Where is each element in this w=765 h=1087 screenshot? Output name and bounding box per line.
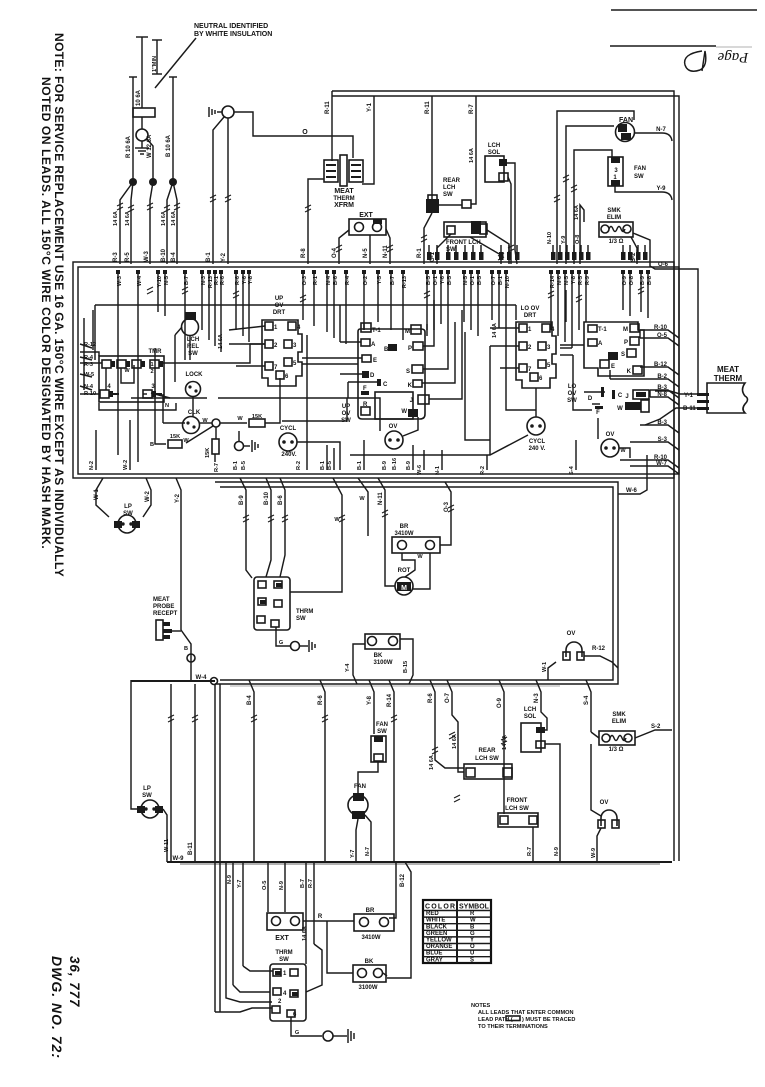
svg-text:N-6: N-6: [557, 276, 563, 285]
wire O-4: [339, 230, 349, 264]
svg-text:B: B: [150, 442, 154, 448]
svg-text:WHITE: WHITE: [426, 918, 445, 924]
svg-text:R-8: R-8: [301, 248, 307, 258]
svg-text:R-10: R-10: [84, 391, 96, 397]
svg-text:W-2: W-2: [123, 460, 129, 470]
svg-text:R-7: R-7: [527, 847, 533, 856]
svg-text:W-3: W-3: [117, 276, 123, 286]
wire R-11 rear latch: [431, 96, 433, 200]
control board frame inner: [78, 267, 679, 474]
svg-text:B-11: B-11: [683, 406, 696, 412]
wire R-10 front latch: [487, 230, 509, 264]
supply lead L1: [132, 77, 134, 181]
svg-text:F: F: [363, 386, 367, 392]
svg-text:Y-1: Y-1: [367, 102, 373, 112]
svg-text:FAN: FAN: [354, 784, 366, 790]
wires exiting band right side with labels: [610, 325, 679, 474]
svg-text:ELIM: ELIM: [607, 215, 621, 221]
svg-text:R-4: R-4: [345, 275, 351, 285]
svg-text:REAR: REAR: [478, 748, 496, 754]
ground at neutral: [141, 141, 143, 148]
svg-text:B-11: B-11: [188, 842, 194, 855]
wire lp to bus: [163, 809, 167, 862]
svg-text:N-9: N-9: [279, 881, 285, 890]
svg-text:RECEPT: RECEPT: [153, 611, 178, 617]
svg-text:CYCL: CYCL: [280, 426, 297, 432]
wire from solenoid pin 2: [508, 177, 511, 264]
wire ext to br: [303, 920, 354, 922]
svg-text:COLOR: COLOR: [425, 904, 455, 911]
svg-text:FAN: FAN: [634, 166, 646, 172]
svg-text:14 6A: 14 6A: [302, 926, 308, 941]
svg-text:SW: SW: [142, 793, 152, 799]
svg-text:B-15: B-15: [403, 661, 409, 673]
svg-text:CYCL: CYCL: [529, 439, 546, 445]
svg-text:14 6A: 14 6A: [452, 734, 458, 749]
wire R-7 lower: [532, 827, 534, 862]
svg-text:SYMBOL: SYMBOL: [459, 904, 490, 911]
svg-text:1″MIN: 1″MIN: [152, 56, 158, 72]
svg-text:Y-1: Y-1: [684, 393, 694, 399]
junction dot W-4: [211, 678, 218, 685]
svg-text:UP: UP: [275, 296, 283, 302]
wire O-9 front latch: [470, 237, 501, 264]
wire B-6 drop: [280, 478, 285, 577]
svg-text:R-14: R-14: [550, 275, 556, 288]
svg-text:Page: Page: [717, 49, 749, 65]
svg-text:THERM: THERM: [714, 374, 743, 383]
svg-text:BLUE: BLUE: [426, 951, 442, 957]
svg-text:MEAT: MEAT: [153, 597, 170, 603]
svg-text:14 6A: 14 6A: [161, 211, 167, 226]
svg-text:14 6A: 14 6A: [171, 211, 177, 226]
wire S-2 lower: [635, 730, 672, 738]
svg-text:Y-8: Y-8: [367, 695, 373, 705]
wire B-2 riser: [609, 370, 611, 379]
wire S-4 lower: [586, 680, 591, 732]
svg-text:EXT: EXT: [275, 935, 289, 942]
svg-text:G: G: [470, 931, 475, 937]
svg-text:R-7: R-7: [214, 463, 220, 472]
svg-text:LCH: LCH: [443, 185, 455, 191]
svg-text:B-2: B-2: [657, 374, 667, 380]
svg-text:Y: Y: [470, 938, 474, 944]
svg-text:W: W: [617, 406, 623, 412]
wire R-8 from transformer: [308, 179, 324, 264]
svg-text:W-11: W-11: [164, 839, 170, 852]
timer contact box: [99, 356, 164, 402]
wire Y-1 from transformer: [362, 96, 374, 184]
wire Y-4 to bake element: [353, 644, 365, 684]
svg-text:REL: REL: [187, 344, 199, 350]
svg-text:B: B: [470, 924, 475, 930]
wire R-3: [120, 182, 133, 264]
ground mid band: [244, 445, 250, 447]
transformer MEAT THERM XFRM: [324, 155, 363, 186]
wire Y-1 meat therm: [655, 391, 698, 394]
wire w-1 ov: [548, 662, 556, 680]
wire B-4: [249, 680, 254, 862]
svg-text:M: M: [401, 585, 407, 592]
svg-text:OV: OV: [606, 432, 615, 438]
wire R-14 to broil element: [389, 862, 396, 918]
svg-text:SW: SW: [634, 174, 644, 180]
contact row 2: [80, 390, 162, 398]
svg-text:SW: SW: [567, 398, 577, 404]
svg-text:O-9: O-9: [497, 697, 503, 708]
svg-text:2: 2: [150, 369, 153, 375]
svg-text:R-13: R-13: [402, 276, 408, 288]
wire W to BR: [358, 478, 368, 536]
relay LCH REL SW: [182, 312, 199, 336]
svg-text:K: K: [408, 383, 413, 389]
wire hash marks (150C): [117, 175, 644, 802]
svg-text:B-12: B-12: [400, 873, 406, 887]
svg-text:O-2: O-2: [363, 276, 369, 285]
wire O-1: [437, 234, 451, 264]
svg-text:P: P: [624, 340, 628, 346]
svg-text:N-7: N-7: [656, 127, 666, 133]
wire N-11: [378, 478, 385, 536]
svg-text:3410W: 3410W: [361, 935, 380, 941]
svg-text:NOTED ON LEADS. ALL 150°C WIR: NOTED ON LEADS. ALL 150°C WIRE COLOR DES…: [39, 77, 53, 549]
svg-text:B-1: B-1: [320, 461, 326, 470]
band bottom interior labels: [306, 335, 308, 470]
svg-text:B-6: B-6: [333, 276, 339, 285]
wire R-5: [131, 182, 133, 264]
wire Y-8: [369, 680, 374, 734]
chassis ground symbol: [208, 107, 210, 117]
svg-text:ORANGE: ORANGE: [426, 944, 452, 950]
svg-text:B-1: B-1: [357, 461, 363, 470]
svg-text:N-10: N-10: [547, 232, 553, 244]
svg-text:SW: SW: [296, 616, 306, 622]
svg-text:O-8: O-8: [575, 235, 581, 244]
svg-text:N-11: N-11: [378, 492, 384, 505]
svg-text:B-7: B-7: [184, 276, 190, 285]
wire to front latch: [503, 723, 505, 814]
svg-text:15K: 15K: [170, 434, 180, 440]
svg-text:O-8: O-8: [629, 276, 635, 285]
svg-text:R: R: [470, 911, 475, 917]
junction dot L1: [129, 178, 137, 186]
svg-text:B-1: B-1: [206, 252, 212, 262]
svg-text:BR: BR: [366, 908, 375, 914]
relay LO OV latch block: [584, 322, 644, 376]
svg-text:C: C: [383, 382, 388, 388]
svg-text:R-6: R-6: [235, 276, 241, 285]
wire O-3: [440, 482, 451, 545]
svg-text:N-5: N-5: [363, 248, 369, 258]
svg-text:YELLOW: YELLOW: [426, 938, 452, 944]
svg-text:SW: SW: [377, 729, 387, 735]
svg-text:EXT: EXT: [359, 212, 373, 219]
wire from solenoid pin 1: [507, 163, 517, 264]
svg-text:Y-8: Y-8: [248, 276, 254, 284]
svg-text:W-4: W-4: [137, 275, 143, 286]
svg-text:E: E: [373, 358, 377, 364]
svg-text:O-1: O-1: [433, 276, 439, 285]
wire O to transformer: [234, 112, 353, 158]
lamp CYCL 240 V right: [527, 417, 545, 435]
svg-text:14 6A: 14 6A: [469, 148, 475, 163]
wire R-11 to transformer: [331, 96, 333, 161]
svg-text:GREEN: GREEN: [426, 931, 447, 937]
wire Y-2 mid: [176, 478, 181, 630]
svg-text:J: J: [625, 394, 628, 400]
wire R-6 latch: [430, 680, 464, 768]
svg-text:B-9: B-9: [239, 495, 245, 505]
ground bottom: [291, 1017, 322, 1036]
junction dot L2: [169, 178, 177, 186]
svg-text:N-9: N-9: [227, 875, 233, 884]
svg-text:N-2: N-2: [89, 461, 95, 470]
wire S-3 from OV: [629, 441, 631, 443]
svg-text:THRM: THRM: [296, 609, 313, 615]
wire W-6: [618, 455, 647, 494]
svg-text:BK: BK: [365, 959, 374, 965]
svg-text:240V.: 240V.: [281, 452, 296, 458]
svg-text:N-8: N-8: [657, 392, 667, 398]
svg-text:REAR: REAR: [443, 178, 461, 184]
svg-text:Y-8: Y-8: [571, 276, 577, 284]
wire ov lower wiring: [591, 744, 601, 816]
svg-text:ROT: ROT: [398, 568, 411, 574]
callout leader line: [155, 38, 196, 88]
svg-text:W-2: W-2: [145, 490, 151, 502]
svg-text:B-5: B-5: [447, 276, 453, 285]
wire bundle risers to fan group: [557, 111, 634, 264]
svg-text:RED: RED: [426, 911, 439, 917]
svg-text:W-9: W-9: [173, 856, 185, 862]
svg-text:SW: SW: [279, 957, 289, 963]
svg-text:N-5: N-5: [463, 276, 469, 285]
wire O-7: [447, 680, 464, 772]
svg-text:SW: SW: [443, 192, 453, 198]
wires entering control board top edge (labelled): [116, 270, 653, 462]
svg-text:R 10 6A: R 10 6A: [126, 135, 132, 158]
svg-text:Y-10: Y-10: [157, 276, 163, 288]
connector stubs above band edge (right clusters): [427, 245, 648, 260]
leads from left edge: [80, 344, 92, 348]
supply lead N (neutral): [141, 37, 143, 108]
svg-text:N-3: N-3: [201, 276, 207, 285]
svg-text:LO: LO: [568, 384, 577, 390]
interior connecting wires right: [535, 388, 537, 417]
svg-text:NOTES: NOTES: [471, 1003, 491, 1009]
svg-text:B-8: B-8: [647, 276, 653, 285]
svg-text:LCH SW: LCH SW: [505, 806, 529, 812]
svg-text:GRAY: GRAY: [426, 957, 443, 963]
wires dropping below bus: [227, 862, 314, 985]
wire R-14: [389, 680, 394, 862]
svg-text:F: F: [596, 410, 600, 416]
thermostat THRM SW mid: [254, 577, 290, 630]
svg-text:B-1: B-1: [233, 461, 239, 470]
outer harness box top/right rails: [332, 91, 674, 861]
svg-text:B-3: B-3: [657, 420, 667, 426]
svg-text:W-9: W-9: [591, 848, 597, 858]
notes text bottom: [471, 1003, 575, 1030]
svg-text:R-1: R-1: [417, 248, 423, 258]
wire bk right stub: [383, 973, 387, 976]
svg-text:W: W: [124, 368, 130, 374]
relay pins M P S E K: [600, 324, 642, 375]
wire B to clk: [155, 430, 166, 444]
svg-text:1/3 Ω: 1/3 Ω: [609, 747, 624, 753]
svg-text:OV: OV: [600, 800, 609, 806]
svg-text:MEAT: MEAT: [334, 188, 354, 195]
wire N-11: [386, 229, 390, 264]
svg-text:LCH: LCH: [187, 337, 199, 343]
switch FAN SW top: [608, 157, 623, 186]
svg-text:S: S: [470, 957, 474, 963]
svg-text:N-5: N-5: [164, 276, 170, 285]
svg-text:O-3: O-3: [302, 276, 308, 285]
svg-text:O-7: O-7: [445, 692, 451, 703]
svg-text:A: A: [598, 341, 603, 347]
wire R-12: [80, 352, 99, 356]
wire W-2 drop: [129, 420, 131, 470]
svg-text:LCH: LCH: [488, 143, 500, 149]
svg-text:R-7: R-7: [469, 104, 475, 114]
svg-text:B-9: B-9: [382, 461, 388, 470]
svg-text:Y-9: Y-9: [656, 186, 666, 192]
switch LP SW mid: [96, 478, 109, 517]
svg-text:14 6A: 14 6A: [125, 211, 131, 226]
svg-text:R-2: R-2: [296, 461, 302, 470]
svg-text:O-5: O-5: [657, 333, 668, 339]
svg-text:B: B: [184, 646, 188, 652]
svg-text:Y-7: Y-7: [237, 880, 243, 888]
svg-text:R-7: R-7: [308, 879, 314, 888]
svg-text:W: W: [237, 416, 243, 422]
svg-text:LCH SW: LCH SW: [475, 756, 499, 762]
svg-text:W: W: [620, 448, 626, 454]
svg-text:W-6: W-6: [626, 488, 638, 494]
1 inch min bracket: [156, 40, 158, 74]
svg-text:1/3 Ω: 1/3 Ω: [609, 239, 624, 245]
svg-text:R-12: R-12: [592, 646, 606, 652]
svg-text:O-4: O-4: [332, 247, 338, 258]
wire feeds LO OV DRT: [490, 327, 519, 329]
svg-text:14 6A: 14 6A: [502, 735, 508, 750]
wire B-4: [173, 182, 177, 264]
wire Y-9: [615, 186, 672, 200]
svg-text:DRT: DRT: [273, 310, 286, 316]
svg-text:240 V.: 240 V.: [529, 446, 546, 452]
svg-text:PROBE: PROBE: [153, 604, 174, 610]
svg-text:FRONT: FRONT: [507, 798, 528, 804]
svg-text:R-9: R-9: [585, 276, 591, 285]
long interior bus wires: [95, 304, 516, 306]
svg-text:N-1: N-1: [435, 466, 441, 475]
svg-text:W: W: [334, 517, 340, 523]
svg-text:N-7: N-7: [365, 847, 371, 856]
svg-text:R-2: R-2: [480, 466, 486, 475]
svg-text:BK: BK: [374, 653, 383, 659]
wire N-3: [536, 680, 547, 730]
switch FRONT LCH SW top: [444, 222, 486, 237]
svg-text:14 6A: 14 6A: [113, 211, 119, 226]
wire B-10 drop: [266, 478, 271, 577]
svg-text:Y-5: Y-5: [377, 276, 383, 284]
svg-text:N-3: N-3: [534, 693, 540, 703]
wire fan wiring: [358, 762, 378, 793]
resistor 15K vertical: [212, 439, 219, 454]
wire clock chain: [200, 422, 212, 424]
svg-text:W: W: [359, 496, 365, 502]
wire B-9 drop: [240, 478, 252, 578]
svg-text:T-1: T-1: [372, 328, 381, 334]
main bus W-9: [167, 861, 672, 863]
svg-text:Y-6: Y-6: [440, 276, 446, 284]
svg-text:B-9: B-9: [406, 461, 412, 470]
svg-text:DWG. NO. 72:: DWG. NO. 72:: [49, 956, 65, 1059]
svg-text:TO THEIR TERMINATIONS: TO THEIR TERMINATIONS: [478, 1024, 548, 1030]
svg-text:S-4: S-4: [584, 695, 590, 705]
splice node clk: [212, 419, 220, 427]
wire S-2 top: [631, 237, 637, 264]
svg-text:R-3: R-3: [84, 362, 93, 368]
svg-text:Y-2: Y-2: [221, 252, 227, 262]
wire N-5: [369, 235, 371, 264]
svg-text:B-5: B-5: [426, 276, 432, 285]
svg-text:B-4: B-4: [171, 252, 177, 262]
wires into bottom thrm sw: [233, 985, 270, 992]
svg-text:SMK: SMK: [612, 712, 626, 718]
svg-text:S-2: S-2: [651, 724, 661, 730]
svg-text:LP: LP: [124, 504, 132, 510]
svg-text:B 10 6A: B 10 6A: [166, 134, 172, 157]
svg-text:M: M: [405, 329, 410, 335]
svg-text:BY WHITE INSULATION: BY WHITE INSULATION: [194, 31, 272, 38]
wire to UP OV DRT pins: [229, 326, 265, 330]
splice connector mid: [235, 442, 244, 451]
svg-text:W-1: W-1: [542, 662, 548, 672]
svg-text:B-5: B-5: [327, 461, 333, 470]
svg-text:R-11: R-11: [325, 101, 331, 114]
svg-text:LO OV: LO OV: [521, 306, 540, 312]
wire N-2 drop: [95, 430, 97, 470]
svg-text:W-4: W-4: [196, 675, 208, 681]
svg-text:MEAT: MEAT: [717, 365, 739, 374]
svg-text:R-3: R-3: [113, 252, 119, 262]
svg-text:G: G: [295, 1030, 299, 1036]
wire from receptacle to dot: [172, 630, 181, 632]
svg-text:B-5: B-5: [241, 461, 247, 470]
svg-text:S: S: [406, 369, 410, 375]
svg-text:14 6A: 14 6A: [492, 323, 498, 338]
svg-text:3100W: 3100W: [358, 985, 377, 991]
wire B-15 from bake element: [400, 639, 413, 684]
svg-text:O-9: O-9: [622, 276, 628, 285]
svg-text:15K: 15K: [205, 448, 211, 458]
bake element BK 3100W mid: [365, 634, 400, 649]
wire R-6: [320, 680, 325, 862]
oven loop rails lower: [214, 684, 216, 1012]
svg-text:P: P: [408, 346, 412, 352]
svg-text:FAN: FAN: [376, 722, 388, 728]
svg-text:36, 777: 36, 777: [67, 956, 82, 1008]
svg-text:O: O: [302, 129, 308, 136]
svg-text:THRM: THRM: [275, 950, 292, 956]
svg-text:W-1: W-1: [94, 488, 100, 500]
svg-text:ALL LEADS THAT ENTER COMMON: ALL LEADS THAT ENTER COMMON: [478, 1010, 574, 1016]
wire contact row to relay: [161, 344, 265, 363]
wire W long: [290, 478, 342, 592]
wire R-1: [424, 213, 432, 264]
